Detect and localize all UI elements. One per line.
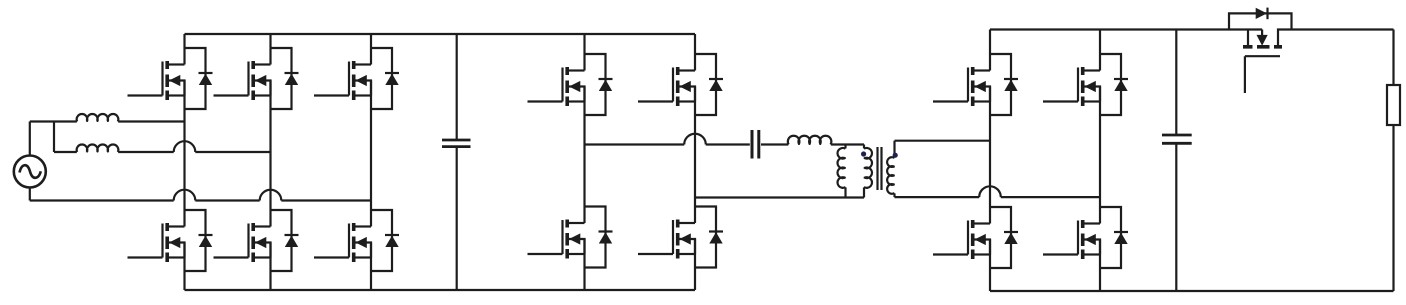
MOSFET S4 (rectifier leg2 bottom) — [1043, 207, 1128, 268]
MOSFET Q5 (AC bridge leg3 top) — [314, 48, 399, 109]
wire hop over leg 1 — [174, 190, 196, 201]
wire: AC bridge leg 1 vertical — [183, 34, 185, 290]
MOSFET Q10 (full-bridge legB bottom) — [638, 207, 723, 268]
MOSFET Q7 (full-bridge legA top) — [528, 54, 613, 115]
wire: AC bridge leg 3 vertical — [370, 34, 372, 290]
wire: full-bridge leg B vertical — [694, 34, 696, 290]
MOSFET Q9 (full-bridge legB top) — [638, 54, 723, 115]
wire: AC source bottom lead — [29, 188, 31, 201]
wire: secondary bottom lead to rectifier leg 2 (hop over leg 1) — [895, 196, 1101, 198]
wire: phase line 2 to leg 2 (hop over leg 1) — [54, 151, 271, 153]
wire: legA midpoint to resonant tank (hop over legB) — [585, 143, 865, 145]
capacitor Cr (resonant) — [752, 130, 759, 159]
MOSFET Q6 (AC bridge leg3 bottom) — [314, 210, 399, 271]
wire: positive DC rail — [185, 33, 696, 35]
transformer T1 secondary winding — [887, 141, 894, 197]
MOSFET Q8 (full-bridge legA bottom) — [528, 207, 613, 268]
wire: phase line 1 to leg 1 — [30, 120, 185, 122]
wire: rectifier leg 2 vertical — [1099, 30, 1101, 292]
wire: negative DC rail — [185, 289, 696, 291]
transformer polarity dot (secondary) — [893, 153, 898, 158]
MOSFET S1 (rectifier leg1 top) — [933, 54, 1018, 115]
transformer polarity dot (primary) — [861, 151, 866, 156]
node: branch junction to line 2 — [53, 122, 55, 153]
AC source V1 — [14, 156, 46, 188]
MOSFET Q2 (AC bridge leg1 bottom) — [128, 210, 213, 271]
MOSFET S2 (rectifier leg1 bottom) — [933, 207, 1018, 268]
MOSFET Q4 (AC bridge leg2 bottom) — [214, 210, 299, 271]
resistor R-load — [1387, 85, 1400, 125]
MOSFET Q3 (AC bridge leg2 top) — [214, 48, 299, 109]
wire: AC source top lead — [29, 122, 31, 156]
wire: secondary positive rail — [990, 28, 1262, 30]
wire: rectifier leg 1 vertical — [989, 30, 991, 292]
capacitor C2 (output) — [1162, 30, 1192, 292]
inductor L2 — [77, 145, 119, 152]
wire hop over rectifier leg 1 — [979, 186, 1001, 197]
diode D1 (antiparallel across S5) — [1229, 8, 1292, 30]
inductor Lr (resonant) — [788, 136, 832, 145]
wire: return line to leg 3 (hops over legs 1 and 2) — [30, 199, 371, 201]
wire hop over leg 2 — [260, 190, 282, 201]
capacitor C1 (DC link) — [442, 34, 471, 290]
MOSFET Q1 (AC bridge leg1 top) — [128, 48, 213, 109]
wire: full-bridge leg A vertical — [583, 34, 585, 290]
wire hop over leg B — [684, 134, 706, 145]
wire hop over leg 1 — [174, 141, 196, 152]
inductor L1 — [77, 114, 119, 121]
transformer T1 primary winding — [864, 145, 872, 198]
MOSFET S3 (rectifier leg2 top) — [1043, 54, 1128, 115]
inductor Lm (magnetizing) — [837, 145, 845, 198]
transformer T1 core — [878, 147, 882, 190]
MOSFET S5 (output disconnect switch, horizontal) — [1243, 30, 1394, 94]
wire: legB midpoint to transformer primary bottom — [695, 196, 864, 198]
wire: secondary negative rail — [990, 290, 1394, 292]
wire: AC bridge leg 2 vertical — [269, 34, 271, 290]
wire: secondary top lead to rectifier leg 1 — [895, 140, 991, 142]
wire: load branch vertical — [1392, 30, 1394, 292]
